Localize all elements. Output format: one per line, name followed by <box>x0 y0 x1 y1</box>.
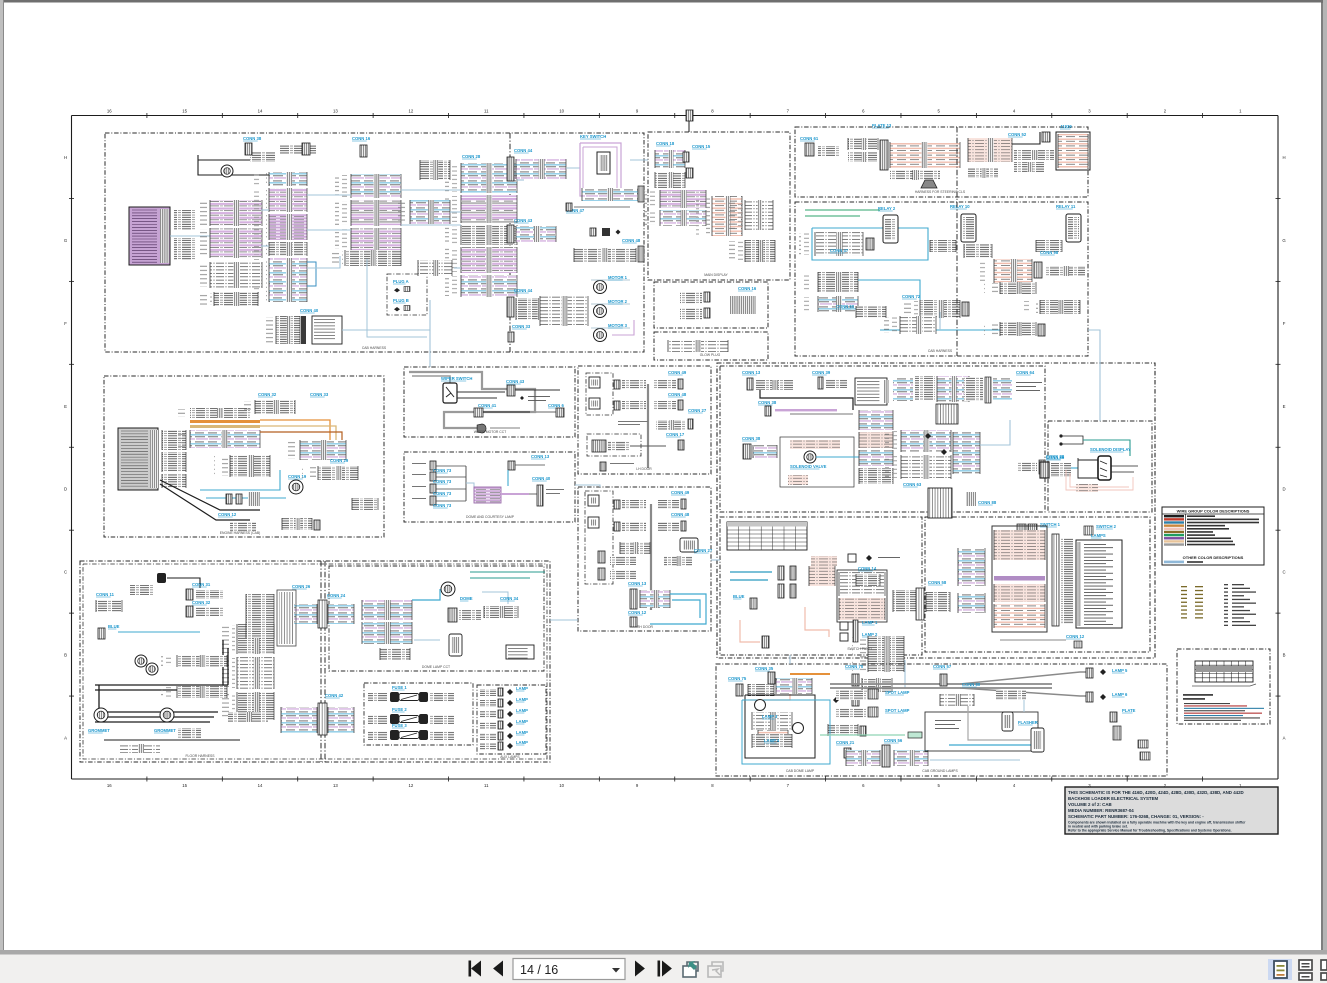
svg-text:SWITCH 2: SWITCH 2 <box>1096 524 1117 529</box>
svg-text:BLUE: BLUE <box>733 594 745 599</box>
svg-text:14: 14 <box>258 783 263 788</box>
svg-text:PLUG A: PLUG A <box>393 279 409 284</box>
svg-text:SOLENOID DISPLAY: SOLENOID DISPLAY <box>1090 447 1131 452</box>
svg-text:CONN 11: CONN 11 <box>96 592 115 597</box>
svg-text:CONN 38: CONN 38 <box>742 436 761 441</box>
svg-text:MOTOR 1: MOTOR 1 <box>608 275 628 280</box>
svg-text:CONN 21: CONN 21 <box>836 740 855 745</box>
svg-text:CONN 31: CONN 31 <box>192 582 211 587</box>
svg-text:CONN 32: CONN 32 <box>258 392 277 397</box>
svg-text:CONN 14: CONN 14 <box>858 566 877 571</box>
svg-text:E: E <box>64 404 67 409</box>
svg-text:SWITCH PANEL: SWITCH PANEL <box>847 647 872 651</box>
svg-text:LAMP 5: LAMP 5 <box>1112 668 1128 673</box>
svg-text:CONN 43: CONN 43 <box>506 379 525 384</box>
svg-text:CONN 47: CONN 47 <box>830 248 849 253</box>
svg-text:LAMP: LAMP <box>516 697 528 702</box>
svg-text:SCHEMATIC PART NUMBER: 176-026: SCHEMATIC PART NUMBER: 176-0268, CHANGE:… <box>1068 814 1204 819</box>
svg-text:WIRE GROUP COLOR DESCRIPTIONS: WIRE GROUP COLOR DESCRIPTIONS <box>1177 509 1250 514</box>
svg-text:WIPER MOTOR CCT: WIPER MOTOR CCT <box>474 430 507 434</box>
svg-text:F: F <box>1283 321 1286 326</box>
svg-text:CONN 13: CONN 13 <box>742 370 761 375</box>
svg-text:CONN 42: CONN 42 <box>325 693 344 698</box>
svg-text:CONN 43: CONN 43 <box>514 218 533 223</box>
svg-text:RELAY 2: RELAY 2 <box>878 206 896 211</box>
svg-text:CONN 13: CONN 13 <box>628 581 647 586</box>
svg-text:A: A <box>64 736 67 741</box>
svg-text:LAMP: LAMP <box>516 740 528 745</box>
svg-text:BLUE: BLUE <box>108 624 120 629</box>
svg-text:15: 15 <box>182 783 187 788</box>
svg-text:C: C <box>64 570 67 575</box>
svg-text:CONN 33: CONN 33 <box>512 324 531 329</box>
svg-text:E: E <box>1283 404 1286 409</box>
svg-text:Refer to the appropriate Servi: Refer to the appropriate Service Manual … <box>1068 829 1232 833</box>
svg-text:OTHER COLOR DESCRIPTIONS: OTHER COLOR DESCRIPTIONS <box>1183 555 1244 560</box>
svg-text:CONN 70: CONN 70 <box>845 664 864 669</box>
svg-text:FUSE 3: FUSE 3 <box>392 723 407 728</box>
svg-text:BACKHOE LOADER ELECTRICAL SYST: BACKHOE LOADER ELECTRICAL SYSTEM <box>1068 796 1159 801</box>
svg-text:FUSE 1: FUSE 1 <box>392 685 407 690</box>
svg-text:LAMP: LAMP <box>516 686 528 691</box>
svg-text:16: 16 <box>107 783 112 788</box>
svg-text:CONN 80: CONN 80 <box>962 682 981 687</box>
svg-text:CONN 48: CONN 48 <box>622 238 641 243</box>
svg-text:CONN 48: CONN 48 <box>668 392 687 397</box>
svg-text:DOME AND COURTESY LAMP: DOME AND COURTESY LAMP <box>466 515 515 519</box>
svg-text:MAIN DISPLAY: MAIN DISPLAY <box>704 273 728 277</box>
svg-text:CAB GROUND LAMPS: CAB GROUND LAMPS <box>922 769 958 773</box>
svg-text:CONN 56: CONN 56 <box>884 738 903 743</box>
svg-text:B: B <box>1283 653 1286 658</box>
svg-text:CONN 38: CONN 38 <box>243 136 262 141</box>
svg-text:14: 14 <box>258 109 263 114</box>
svg-text:LAMP 1: LAMP 1 <box>862 620 878 625</box>
svg-text:KEY SWITCH: KEY SWITCH <box>580 134 606 139</box>
svg-text:CONN 88: CONN 88 <box>978 500 997 505</box>
svg-text:PLATE 13: PLATE 13 <box>872 123 892 128</box>
svg-text:CONN 40: CONN 40 <box>532 476 551 481</box>
svg-text:CONN 40: CONN 40 <box>300 308 319 313</box>
svg-text:LAMP 3: LAMP 3 <box>762 714 778 719</box>
svg-text:CONN 64: CONN 64 <box>1016 370 1035 375</box>
svg-text:CONN 49: CONN 49 <box>668 370 687 375</box>
svg-text:MEDIA NUMBER: RENR3687-04: MEDIA NUMBER: RENR3687-04 <box>1068 808 1134 813</box>
svg-text:AUX LAMPS: AUX LAMPS <box>500 755 520 759</box>
svg-text:CONN 38: CONN 38 <box>758 400 777 405</box>
svg-text:CONN 12: CONN 12 <box>1066 634 1085 639</box>
svg-text:SPOT LAMP: SPOT LAMP <box>885 690 910 695</box>
svg-text:CONN 50: CONN 50 <box>836 304 855 309</box>
svg-text:LAMPS: LAMPS <box>1091 533 1106 538</box>
svg-text:11: 11 <box>484 783 489 788</box>
svg-text:CONN 44: CONN 44 <box>514 148 533 153</box>
svg-text:LAMP 4: LAMP 4 <box>764 738 780 743</box>
svg-text:C: C <box>1282 570 1285 575</box>
svg-text:CAB HARNESS: CAB HARNESS <box>362 346 387 350</box>
svg-text:12: 12 <box>408 109 413 114</box>
svg-text:CONN 44: CONN 44 <box>514 288 533 293</box>
svg-text:HARNESS FOR STEERING CLS: HARNESS FOR STEERING CLS <box>915 190 966 194</box>
svg-text:LAMP: LAMP <box>516 719 528 724</box>
svg-text:SPOT LAMP: SPOT LAMP <box>885 708 910 713</box>
svg-text:CONN 73: CONN 73 <box>433 479 452 484</box>
svg-text:THIS SCHEMATIC IS FOR THE 416D: THIS SCHEMATIC IS FOR THE 416D, 420D, 42… <box>1068 790 1244 795</box>
svg-text:CONN 6: CONN 6 <box>548 403 564 408</box>
svg-text:CONN 34: CONN 34 <box>500 596 519 601</box>
svg-text:CONN 16: CONN 16 <box>352 136 371 141</box>
svg-text:GLOW PLUG: GLOW PLUG <box>700 353 721 357</box>
svg-text:10: 10 <box>559 783 564 788</box>
svg-text:CONN 49: CONN 49 <box>671 490 690 495</box>
svg-text:VOLUME 2 of 2: CAB: VOLUME 2 of 2: CAB <box>1068 802 1112 807</box>
svg-text:CONN 58: CONN 58 <box>928 580 947 585</box>
svg-text:CONN 72: CONN 72 <box>902 294 921 299</box>
svg-text:F: F <box>64 321 67 326</box>
svg-text:DOME: DOME <box>460 596 473 601</box>
svg-text:CONN 48: CONN 48 <box>671 512 690 517</box>
svg-text:CONN 24: CONN 24 <box>327 593 346 598</box>
svg-text:GROMMET: GROMMET <box>154 728 176 733</box>
svg-text:11: 11 <box>484 109 489 114</box>
svg-text:CONN 57: CONN 57 <box>933 664 952 669</box>
svg-text:PLATE: PLATE <box>1122 708 1136 713</box>
svg-text:CONN 75: CONN 75 <box>728 676 747 681</box>
svg-text:RELAY 11: RELAY 11 <box>1056 204 1076 209</box>
svg-text:CONN 27: CONN 27 <box>688 408 707 413</box>
svg-text:15: 15 <box>182 109 187 114</box>
svg-text:13: 13 <box>333 783 338 788</box>
svg-text:16: 16 <box>107 109 112 114</box>
svg-text:MOTOR 3: MOTOR 3 <box>608 323 628 328</box>
svg-text:H: H <box>64 155 67 160</box>
svg-text:CONN 39: CONN 39 <box>812 370 831 375</box>
svg-text:CONN 12: CONN 12 <box>218 512 237 517</box>
svg-text:CONN 16: CONN 16 <box>738 286 757 291</box>
svg-text:CONN 61: CONN 61 <box>800 136 819 141</box>
svg-text:A: A <box>1283 736 1286 741</box>
svg-text:DOME LAMP CCT: DOME LAMP CCT <box>422 665 450 669</box>
svg-text:LH DOOR: LH DOOR <box>636 467 652 471</box>
svg-text:LAMP 6: LAMP 6 <box>1112 692 1128 697</box>
svg-text:SOLENOID VALVE: SOLENOID VALVE <box>790 464 827 469</box>
svg-text:14 / 16: 14 / 16 <box>520 963 558 977</box>
svg-text:PLUG B: PLUG B <box>393 298 409 303</box>
svg-text:RELAY 10: RELAY 10 <box>950 204 970 209</box>
svg-text:H: H <box>1282 155 1285 160</box>
svg-text:CONN 35: CONN 35 <box>755 666 774 671</box>
svg-text:B: B <box>64 653 67 658</box>
svg-text:CONN 17: CONN 17 <box>666 432 685 437</box>
svg-text:LAMP: LAMP <box>516 708 528 713</box>
svg-text:CONN 15: CONN 15 <box>692 144 711 149</box>
svg-text:CONN 88: CONN 88 <box>1046 455 1065 460</box>
svg-text:D: D <box>64 487 67 492</box>
svg-text:CONN 29: CONN 29 <box>330 458 349 463</box>
svg-text:FLASHER: FLASHER <box>1018 720 1038 725</box>
svg-text:CAB DOME LAMP: CAB DOME LAMP <box>786 769 815 773</box>
svg-text:CONN 98: CONN 98 <box>1040 250 1059 255</box>
svg-text:CONN 73: CONN 73 <box>433 491 452 496</box>
svg-text:CONN 18: CONN 18 <box>656 141 675 146</box>
svg-text:10: 10 <box>559 109 564 114</box>
svg-text:13: 13 <box>333 109 338 114</box>
svg-text:J1939: J1939 <box>1060 124 1072 129</box>
svg-text:FLOOR HARNESS: FLOOR HARNESS <box>185 754 215 758</box>
svg-text:WIPER SWITCH: WIPER SWITCH <box>441 376 472 381</box>
svg-text:CONN 28: CONN 28 <box>462 154 481 159</box>
svg-text:CONN 41: CONN 41 <box>478 403 497 408</box>
svg-text:ENGINE HARNESS (CAB): ENGINE HARNESS (CAB) <box>220 531 261 535</box>
svg-text:MOTOR 2: MOTOR 2 <box>608 299 628 304</box>
svg-text:GROMMET: GROMMET <box>88 728 110 733</box>
svg-text:CONN 12: CONN 12 <box>628 610 647 615</box>
svg-text:CONN 73: CONN 73 <box>433 503 452 508</box>
svg-text:CONN 27: CONN 27 <box>694 548 713 553</box>
svg-text:CONN 26: CONN 26 <box>292 584 311 589</box>
svg-text:CONN 32: CONN 32 <box>192 600 211 605</box>
svg-text:LAMP: LAMP <box>516 730 528 735</box>
svg-text:CONN 13: CONN 13 <box>531 454 550 459</box>
svg-text:FUSE 2: FUSE 2 <box>392 707 407 712</box>
svg-text:D: D <box>1282 487 1285 492</box>
svg-text:12: 12 <box>408 783 413 788</box>
svg-text:RH DOOR: RH DOOR <box>637 625 654 629</box>
svg-text:CONN 33: CONN 33 <box>310 392 329 397</box>
svg-text:CONN 52: CONN 52 <box>1008 132 1027 137</box>
svg-text:CAB HARNESS: CAB HARNESS <box>928 349 953 353</box>
svg-text:CONN 63: CONN 63 <box>903 482 922 487</box>
